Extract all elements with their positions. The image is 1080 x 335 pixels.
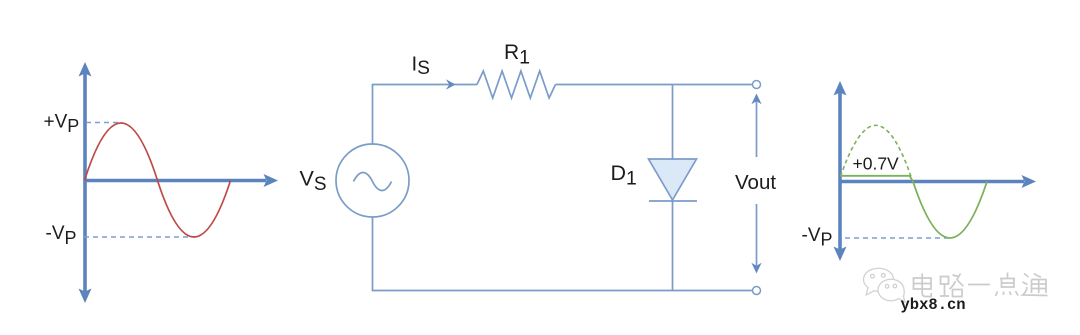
char 点 — [996, 273, 1019, 297]
right graph horizontal axis — [840, 175, 1036, 188]
diode D1 — [649, 159, 698, 201]
clipped positive half-sine (green dashed) — [841, 125, 912, 176]
wire: top left segment — [372, 84, 477, 86]
svg-text:IS: IS — [412, 53, 430, 80]
right graph vertical axis — [834, 81, 847, 261]
input sine wave (red) — [85, 123, 231, 237]
wire: source top up — [372, 85, 374, 145]
char 一 — [968, 284, 990, 286]
wire: resistor to top-right terminal — [556, 84, 753, 86]
svg-text:ybx8.cn: ybx8.cn — [901, 296, 966, 314]
dashed guide -Vp — [84, 236, 191, 238]
wire: source bottom down — [372, 217, 374, 291]
left graph vertical axis — [79, 62, 92, 303]
svg-text:Vout: Vout — [735, 171, 776, 194]
terminal bottom-right — [753, 287, 761, 295]
resistor R1 — [477, 71, 556, 98]
svg-text:-VP: -VP — [46, 223, 77, 248]
sine symbol inside source — [354, 173, 392, 191]
current direction arrow Is — [446, 79, 456, 90]
voltage source U VS circle — [336, 144, 409, 217]
char 电 — [914, 274, 932, 297]
char 路 — [940, 274, 964, 297]
dashed guide -Vp (right graph) — [845, 237, 948, 239]
svg-text:+VP: +VP — [44, 112, 80, 136]
watermark wechat logo — [864, 268, 905, 302]
svg-text:VS: VS — [300, 167, 327, 196]
svg-text:D1: D1 — [611, 161, 637, 190]
dashed guide +Vp — [86, 122, 120, 124]
wire: diode branch vertical — [672, 85, 674, 291]
Vout down arrow — [751, 204, 761, 274]
char 通 — [1023, 274, 1048, 296]
terminal top-right — [753, 81, 761, 89]
left graph horizontal axis — [85, 174, 278, 187]
svg-text:R1: R1 — [504, 41, 530, 69]
Vout up arrow — [751, 94, 761, 158]
wire: bottom segment — [372, 290, 753, 292]
svg-text:-VP: -VP — [802, 225, 833, 250]
watermark text 电路一点通 (drawn) — [914, 273, 1048, 297]
svg-text:+0.7V: +0.7V — [853, 154, 900, 174]
output waveform (green solid) — [841, 176, 988, 238]
